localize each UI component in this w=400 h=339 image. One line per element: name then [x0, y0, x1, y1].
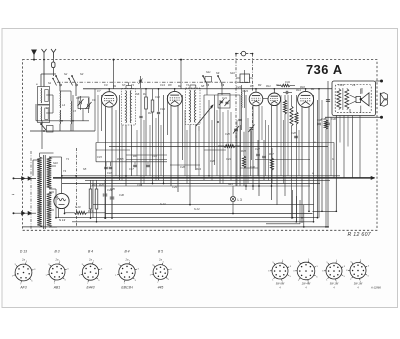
- svg-text:R21: R21: [88, 209, 93, 213]
- wire bus y180: [85, 179, 330, 181]
- tube socket diagram AB1: [49, 264, 65, 280]
- wire left-mid verticals: [97, 95, 99, 143]
- capacitor C11: [326, 122, 330, 124]
- fuse F1: [52, 62, 55, 68]
- wire mid bus 1: [96, 142, 334, 144]
- svg-text:L9: L9: [341, 83, 344, 87]
- svg-text:R12: R12: [276, 83, 281, 87]
- wire bus y183: [62, 183, 320, 185]
- svg-text:S 24: S 24: [194, 207, 200, 211]
- svg-text:B2: B2: [178, 84, 182, 88]
- svg-text:S5: S5: [83, 167, 87, 171]
- svg-text:S 13: S 13: [59, 218, 66, 222]
- wire bottom bus 3: [72, 221, 314, 223]
- capacitor C12 tone: [326, 99, 330, 101]
- wire grid feed V1: [83, 88, 102, 90]
- screen divider caps: [133, 164, 137, 166]
- wire border drop 1: [113, 59, 115, 61]
- wire nested corner d: [303, 205, 305, 227]
- trimmer box: [78, 97, 89, 109]
- wire speaker block leads: [361, 88, 363, 94]
- filter capacitor C14: [110, 196, 115, 198]
- resistor R8 tone: [324, 120, 327, 129]
- svg-text:R4: R4: [148, 111, 152, 115]
- tube V1 (AK2 mixer): [102, 92, 117, 107]
- tube socket diagram EBC3H: [119, 264, 135, 280]
- svg-text:C17: C17: [129, 167, 134, 171]
- svg-text:R17: R17: [269, 152, 274, 156]
- antenna terminal A3 (Y): [51, 49, 56, 58]
- valve pinout diagram 1: [272, 263, 288, 279]
- svg-text:L4: L4: [62, 103, 65, 107]
- tube socket diagram E443: [82, 264, 98, 280]
- wire mid link box: [95, 143, 97, 162]
- wire mid bus 3: [126, 159, 167, 161]
- waveband switch S5 lower: [41, 124, 46, 130]
- mains input terminal lower: [13, 212, 15, 214]
- svg-text:C25: C25: [225, 132, 230, 136]
- wire input section links: [35, 104, 37, 121]
- svg-text:D 13: D 13: [20, 250, 27, 254]
- svg-text:5W 1W: 5W 1W: [330, 282, 339, 286]
- oscillator switch S3: [203, 76, 207, 84]
- smoothing resistor R10: [95, 189, 98, 209]
- capacitor C4: [157, 111, 160, 113]
- svg-text:2W 4W: 2W 4W: [301, 282, 311, 286]
- svg-text:B6: B6: [55, 195, 59, 199]
- svg-text:C31: C31: [285, 80, 290, 84]
- svg-text:L 3: L 3: [238, 198, 243, 202]
- wire stage1 link: [163, 95, 165, 184]
- external speaker terminal P1: [380, 80, 383, 83]
- svg-text:S10: S10: [230, 71, 235, 75]
- svg-text:B 3: B 3: [54, 250, 59, 254]
- wire rectifier leads: [57, 156, 62, 158]
- IF transformer T2: [186, 88, 201, 125]
- svg-text:R11: R11: [266, 84, 271, 88]
- pilot lamp L3: [230, 196, 235, 201]
- wire bottom bus 4: [23, 226, 329, 228]
- svg-text:736 A: 736 A: [306, 62, 343, 77]
- svg-text:S11: S11: [206, 70, 211, 74]
- svg-text:C38: C38: [317, 118, 322, 122]
- wire nested corner c: [299, 200, 301, 224]
- svg-text:2a: 2a: [21, 258, 25, 262]
- svg-text:R6: R6: [133, 154, 137, 158]
- wire right return 2: [343, 116, 345, 178]
- oscillator padder box: [240, 74, 250, 83]
- resistor R15: [242, 156, 245, 168]
- svg-text:C9: C9: [104, 83, 108, 87]
- svg-text:T1: T1: [131, 83, 135, 87]
- volume potentiometer R3: [196, 105, 213, 126]
- svg-text:B 4: B 4: [124, 250, 129, 254]
- wire anode to output transformer: [313, 95, 315, 221]
- waveband switch gang dash-dot line: [57, 81, 251, 83]
- svg-text:C30: C30: [250, 165, 255, 169]
- trimmer capacitor C1: [79, 101, 81, 104]
- wire right return 3: [352, 116, 354, 178]
- tube V5 (output pentode): [298, 91, 314, 107]
- oscillator trimmer box: [218, 94, 230, 109]
- wire input lower links: [36, 120, 89, 122]
- tube V4 (AF amp): [268, 93, 281, 106]
- trimmer capacitor C2: [87, 104, 89, 107]
- svg-text:LS: LS: [352, 83, 355, 87]
- svg-text:B1: B1: [113, 84, 117, 88]
- svg-text:S3: S3: [80, 72, 84, 76]
- tube V3 (detector): [249, 92, 263, 106]
- svg-text:E443: E443: [87, 286, 95, 290]
- external speaker terminal P2: [380, 116, 383, 119]
- svg-text:AB1: AB1: [53, 286, 61, 290]
- resistor R1: [145, 97, 148, 109]
- capacitor C10: [317, 122, 321, 124]
- svg-text:C23: C23: [243, 89, 248, 93]
- svg-text:R20: R20: [99, 183, 104, 187]
- svg-text:EBC3H: EBC3H: [121, 286, 133, 290]
- svg-text:R 12 607: R 12 607: [348, 232, 372, 238]
- svg-text:R8: R8: [168, 83, 172, 87]
- svg-text:S7: S7: [122, 83, 126, 87]
- tuning gang indicator circle: [241, 51, 246, 56]
- oscillator switch S4: [218, 76, 222, 84]
- tuning capacitor C8 variable: [250, 127, 254, 129]
- junction dots: [43, 59, 45, 61]
- power transformer T3 core: [43, 155, 45, 229]
- svg-text:R15: R15: [241, 149, 246, 153]
- svg-text:2a: 2a: [88, 258, 92, 262]
- svg-text:5W 6W: 5W 6W: [276, 282, 285, 286]
- svg-text:B4: B4: [311, 87, 315, 91]
- valve pinout diagram 4: [350, 263, 366, 279]
- svg-text:C29: C29: [172, 185, 177, 189]
- svg-text:T2: T2: [186, 83, 190, 87]
- wire right-mid verticals: [227, 110, 229, 176]
- svg-text:R16: R16: [300, 85, 305, 89]
- wire heater bus: [93, 204, 314, 206]
- svg-text:C24: C24: [226, 157, 231, 161]
- wire antenna lead-in: [43, 60, 45, 87]
- wire right return 1: [313, 210, 337, 212]
- svg-text:T4: T4: [63, 169, 67, 173]
- gang trimmer S7: [140, 76, 142, 88]
- wire V3 leads: [252, 106, 254, 191]
- svg-text:R7: R7: [117, 157, 121, 161]
- wire V2 leads: [170, 106, 172, 186]
- input coil L4: [59, 110, 61, 124]
- rectifier tube V6: [54, 193, 69, 208]
- mains input terminal upper: [13, 177, 15, 179]
- wire mid horizontal segments: [126, 154, 167, 156]
- svg-text:S 23: S 23: [160, 202, 166, 206]
- input coil L3: [59, 91, 62, 108]
- resistor R5: [283, 100, 286, 114]
- svg-text:R9: R9: [250, 84, 254, 88]
- schematic dashed border: [23, 60, 378, 231]
- svg-text:C21: C21: [222, 96, 227, 100]
- valve pinout diagram 3: [326, 263, 342, 279]
- wire border drop 2: [180, 59, 182, 61]
- output transformer T2o: [337, 89, 341, 110]
- svg-text:~: ~: [12, 193, 15, 199]
- resistor R16: [270, 158, 273, 170]
- wire AVC bus: [62, 175, 340, 177]
- svg-text:S8: S8: [201, 84, 205, 88]
- svg-text:C27: C27: [255, 147, 260, 151]
- svg-text:S2: S2: [64, 72, 68, 76]
- svg-text:S6: S6: [136, 92, 140, 96]
- waveband switch S2: [72, 76, 76, 84]
- svg-text:R13: R13: [196, 167, 201, 171]
- svg-text:S 20: S 20: [75, 205, 81, 209]
- svg-text:R19: R19: [92, 183, 97, 187]
- resistor R2: [151, 100, 154, 112]
- svg-text:C24: C24: [236, 85, 241, 89]
- svg-text:AF3: AF3: [19, 286, 26, 290]
- tube V2 (IF amp): [167, 91, 182, 106]
- svg-text:C6: C6: [92, 98, 96, 102]
- tube socket diagram 445: [153, 265, 168, 280]
- capacitor C20: [256, 153, 260, 155]
- wire det links: [203, 95, 205, 180]
- wire bottom bus 1: [105, 213, 313, 215]
- svg-text:C45: C45: [110, 187, 115, 191]
- svg-text:445: 445: [158, 286, 164, 290]
- power transformer T3 primary: [37, 157, 42, 227]
- mains dash-dot lead: [30, 151, 32, 230]
- svg-text:B 4: B 4: [88, 250, 93, 254]
- svg-text:C12: C12: [155, 95, 160, 99]
- wire osc links: [206, 86, 208, 96]
- capacitor C22: [262, 155, 266, 157]
- loudspeaker unit box: [332, 81, 376, 116]
- wire bottom bus 2: [56, 217, 318, 219]
- svg-text:B 5: B 5: [158, 250, 163, 254]
- power transformer T3 secondary: [47, 157, 52, 189]
- wire HT top bus: [83, 88, 332, 90]
- resistor R6: [290, 106, 293, 126]
- padder capacitor C6: [238, 118, 241, 120]
- svg-text:C18: C18: [107, 171, 112, 175]
- svg-text:S14: S14: [228, 182, 233, 186]
- capacitor C28b: [294, 135, 298, 137]
- svg-text:A-12866: A-12866: [370, 286, 381, 290]
- svg-text:C4: C4: [76, 96, 80, 100]
- wire transformer taps: [49, 156, 57, 158]
- wire nested corner b: [295, 196, 297, 222]
- oscillator trimmer C5a: [220, 100, 223, 102]
- oscillator coil L6: [241, 90, 243, 108]
- oscillator trimmer C5b: [225, 101, 228, 103]
- resistor R24: [224, 145, 235, 148]
- svg-text:S16: S16: [53, 161, 58, 165]
- svg-text:2a: 2a: [158, 258, 162, 262]
- IF transformer T1: [122, 89, 136, 126]
- switch box S11: [205, 77, 212, 83]
- valve pinout diagram 2: [297, 262, 315, 280]
- antenna terminal A1 (arrow): [33, 50, 35, 60]
- tuning capacitor C7 variable: [234, 128, 238, 130]
- wire mid bus 2: [109, 146, 328, 148]
- resistor R7: [295, 112, 298, 124]
- svg-text:C26: C26: [180, 165, 185, 169]
- tuning gang dash-dot link: [236, 53, 241, 55]
- waveband switch S1: [56, 76, 60, 84]
- wire corner to transformer: [32, 160, 34, 176]
- svg-text:S1: S1: [48, 81, 52, 85]
- svg-text:C14: C14: [160, 107, 165, 111]
- antenna terminal A2 (Y): [42, 49, 47, 60]
- wire bus y186: [90, 185, 310, 187]
- loudspeaker LS: [356, 96, 361, 102]
- input coil L5: [70, 101, 73, 124]
- svg-text:S9: S9: [216, 71, 220, 75]
- chassis dash-dot line: [76, 148, 78, 227]
- svg-text:C13: C13: [160, 83, 165, 87]
- smoothing resistor R9: [89, 189, 92, 209]
- capacitor C9: [285, 91, 287, 94]
- svg-text:C16: C16: [152, 154, 157, 158]
- capacitor C3: [139, 115, 142, 117]
- svg-text:3W 1W: 3W 1W: [354, 282, 363, 286]
- svg-text:L2: L2: [46, 106, 49, 110]
- resistor S20 fuse: [75, 211, 87, 214]
- svg-text:C28: C28: [291, 131, 296, 135]
- wire V1 leads: [105, 106, 107, 218]
- svg-text:C28: C28: [210, 159, 215, 163]
- svg-text:C19: C19: [137, 183, 142, 187]
- speaker plug symbol: [379, 93, 381, 106]
- svg-text:C7: C7: [97, 89, 101, 93]
- wire V5 leads: [301, 107, 303, 223]
- svg-text:C40: C40: [331, 117, 336, 121]
- svg-text:2a: 2a: [125, 258, 129, 262]
- resistor R4: [281, 84, 290, 87]
- wire T2 leads: [189, 85, 191, 88]
- wire right return 4: [359, 116, 361, 178]
- filter capacitor C13: [103, 193, 108, 195]
- svg-text:L5: L5: [73, 109, 76, 113]
- svg-text:T1: T1: [66, 157, 70, 161]
- tube socket diagram AF3: [15, 264, 32, 281]
- wire T1 leads: [125, 86, 127, 89]
- wire dial-drive heavy line: [53, 177, 375, 179]
- svg-text:R1: R1: [143, 92, 147, 96]
- svg-text:B3: B3: [258, 83, 262, 87]
- aerial coil L2: [40, 107, 43, 122]
- svg-text:C15: C15: [97, 155, 102, 159]
- svg-text:C46: C46: [119, 193, 124, 197]
- svg-text:2a: 2a: [55, 258, 59, 262]
- aerial coil L1: [40, 88, 43, 103]
- wire nested corner a: [292, 190, 294, 218]
- wire V4 leads: [271, 105, 273, 200]
